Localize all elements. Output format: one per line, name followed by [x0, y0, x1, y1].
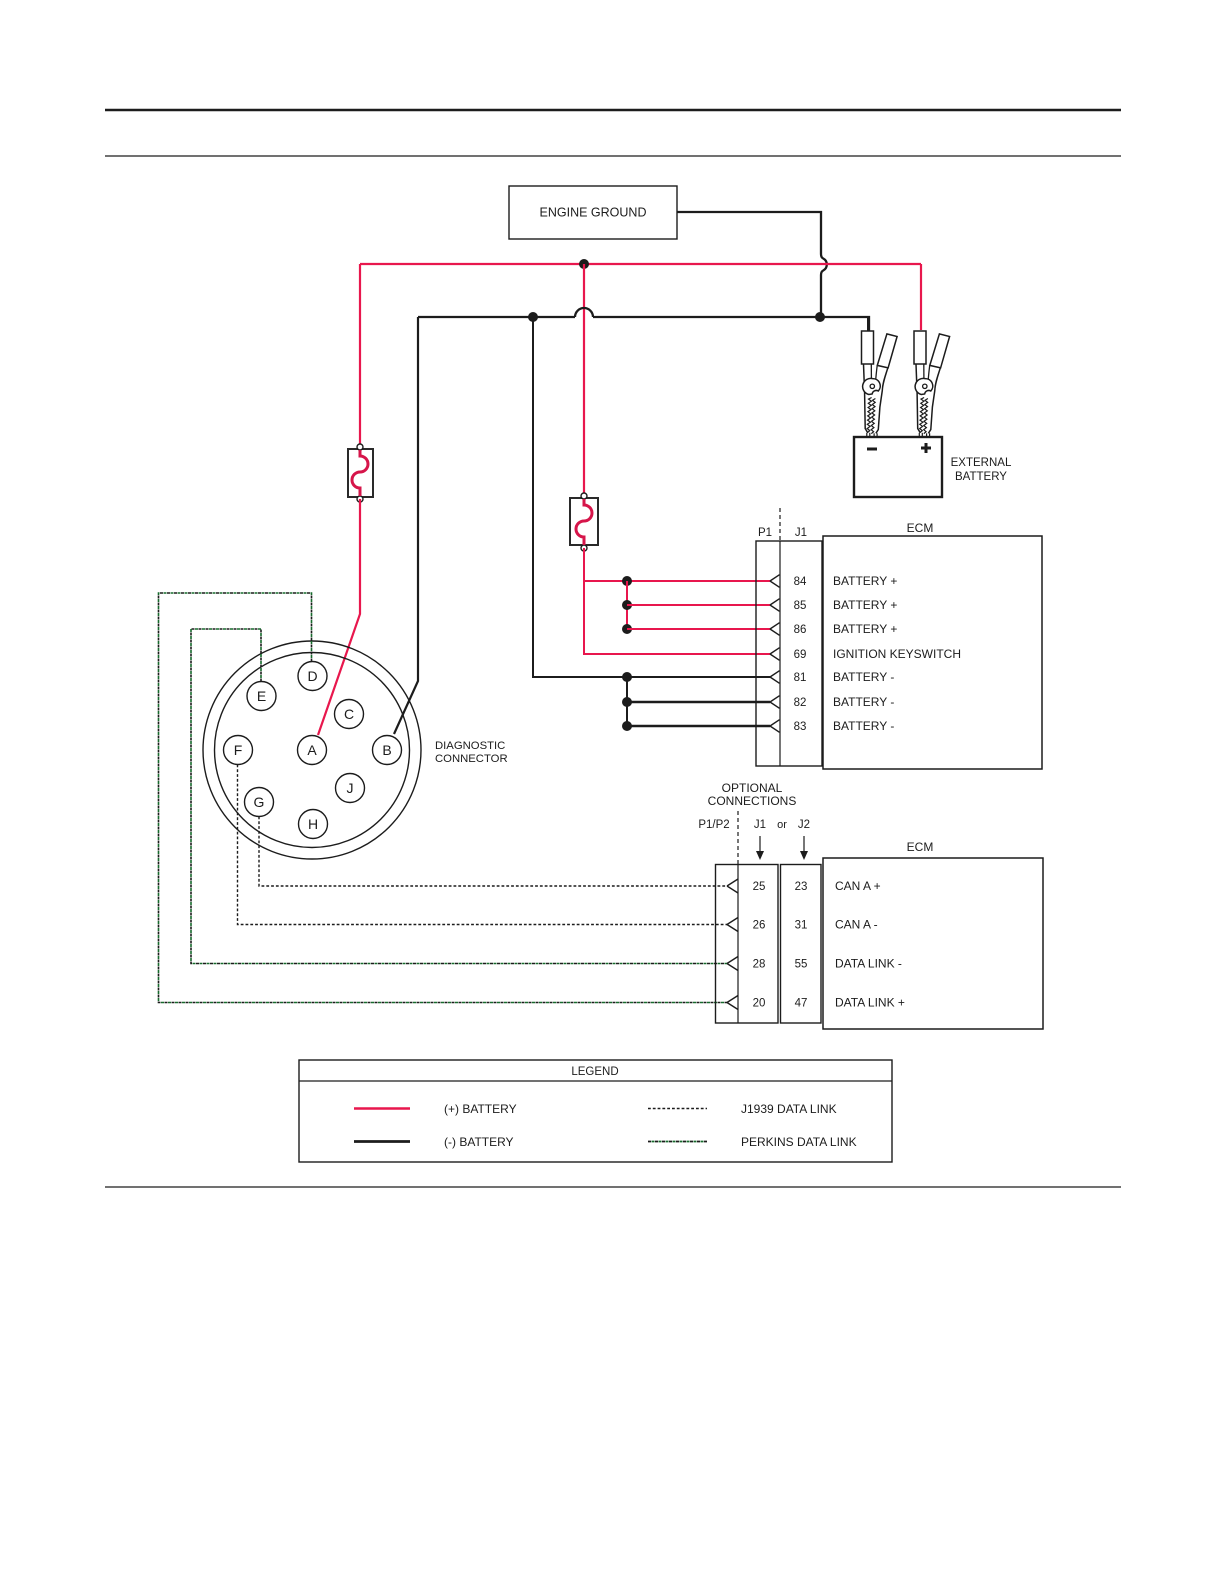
svg-text:81: 81 — [794, 672, 807, 684]
node junction pin83 branch — [622, 721, 632, 731]
wire hop over red battery+ wire — [821, 254, 827, 275]
node junction pin81 branch — [622, 672, 632, 682]
svg-text:G: G — [254, 794, 265, 810]
pin A — [298, 736, 327, 765]
ECM J1 connector strip — [756, 508, 822, 766]
svg-text:ECM: ECM — [907, 521, 934, 535]
svg-text:(-) BATTERY: (-) BATTERY — [444, 1135, 514, 1149]
pin C — [335, 700, 364, 729]
pin B — [373, 736, 402, 765]
svg-text:86: 86 — [794, 624, 807, 636]
svg-text:IGNITION KEYSWITCH: IGNITION KEYSWITCH — [833, 647, 961, 661]
node ENGINE GROUND box — [509, 186, 677, 239]
svg-text:BATTERY -: BATTERY - — [833, 670, 894, 684]
node junction red bus to keyswitch fuse — [579, 259, 589, 269]
pin D — [298, 662, 327, 691]
wire black to negative clip — [867, 317, 869, 331]
wire red to pin 85 — [627, 604, 770, 606]
svg-text:ECM: ECM — [907, 840, 934, 854]
node junction pin86 branch — [622, 624, 632, 634]
optional connector strip J2 — [781, 865, 822, 1024]
wire battery+ bus (red horizontal) — [360, 263, 921, 265]
node junction pin82 branch — [622, 697, 632, 707]
node junction battery- bus / ECM branch — [528, 312, 538, 322]
wire hop over red fuse wire — [575, 308, 593, 317]
pin J — [336, 774, 365, 803]
svg-text:D: D — [307, 668, 317, 684]
pin 69 — [770, 647, 961, 661]
svg-text:B: B — [382, 742, 391, 758]
svg-text:A: A — [307, 742, 317, 758]
top rule thin — [105, 155, 1121, 157]
wire Perkins data link D to pin 20 — [159, 593, 728, 1003]
arrow J1 column — [756, 836, 764, 860]
pin E — [247, 682, 276, 711]
wire red vertical 84-86 — [626, 581, 628, 629]
svg-text:31: 31 — [795, 920, 808, 932]
node junction pin85 branch — [622, 600, 632, 610]
wire battery- bus (black horizontal) left part — [418, 316, 575, 318]
svg-text:DATA LINK +: DATA LINK + — [835, 996, 905, 1010]
svg-text:82: 82 — [794, 697, 807, 709]
wire black to pin 82 — [627, 701, 770, 704]
svg-text:CONNECTIONS: CONNECTIONS — [708, 794, 797, 808]
svg-text:BATTERY +: BATTERY + — [833, 622, 897, 636]
svg-text:DATA LINK -: DATA LINK - — [835, 957, 902, 971]
wire down to battery- bus — [820, 275, 822, 317]
wire red down to fuse F2 — [583, 264, 585, 494]
svg-text:25: 25 — [753, 881, 766, 893]
pin 82 — [770, 695, 894, 709]
top rule thick — [105, 109, 1121, 112]
ECM box (data links) — [823, 840, 1043, 1029]
svg-text:EXTERNAL: EXTERNAL — [951, 457, 1012, 469]
svg-text:20: 20 — [753, 998, 766, 1010]
wire black down to ECM battery- pins — [533, 317, 770, 677]
pin 83 — [770, 719, 894, 733]
svg-text:CAN A +: CAN A + — [835, 879, 881, 893]
battery clip (positive) — [914, 331, 950, 438]
svg-text:83: 83 — [794, 721, 807, 733]
svg-text:DIAGNOSTIC: DIAGNOSTIC — [435, 740, 505, 752]
svg-text:J1: J1 — [795, 527, 807, 539]
svg-text:CAN A -: CAN A - — [835, 918, 878, 932]
svg-text:C: C — [344, 706, 354, 722]
wire J1939 data link F to pin 26 — [238, 765, 728, 925]
svg-text:BATTERY +: BATTERY + — [833, 598, 897, 612]
battery clip (negative) — [862, 331, 898, 438]
svg-text:J: J — [347, 780, 354, 796]
svg-text:P1: P1 — [758, 527, 772, 539]
svg-text:69: 69 — [794, 649, 807, 661]
wire black vertical 81-83 — [626, 677, 628, 726]
diagnostic connector outer ring — [203, 641, 421, 859]
svg-text:PERKINS DATA LINK: PERKINS DATA LINK — [741, 1135, 857, 1149]
external battery box — [854, 437, 942, 497]
legend box — [299, 1060, 892, 1162]
legend Perkins sample — [648, 1141, 707, 1143]
bottom rule — [105, 1186, 1121, 1188]
svg-text:84: 84 — [794, 576, 807, 588]
svg-text:E: E — [257, 688, 266, 704]
node junction pin84 branch — [622, 576, 632, 586]
svg-text:H: H — [308, 816, 318, 832]
svg-text:28: 28 — [753, 959, 766, 971]
svg-text:23: 23 — [795, 881, 808, 893]
pin 81 — [770, 670, 894, 684]
svg-text:or: or — [777, 819, 787, 831]
legend battery- sample — [354, 1140, 410, 1143]
pin H — [299, 810, 328, 839]
ECM box (power) — [823, 521, 1042, 769]
svg-text:P1/P2: P1/P2 — [698, 819, 729, 831]
wire red fuse F2 to ECM pin 69 — [584, 548, 770, 654]
svg-text:55: 55 — [795, 959, 808, 971]
svg-text:OPTIONAL: OPTIONAL — [722, 781, 783, 795]
pin 25 / 23 CAN A + — [727, 879, 881, 893]
svg-text:26: 26 — [753, 920, 766, 932]
wire Perkins data link E to pin 28 — [191, 629, 727, 964]
wire red branch to pin 84 — [584, 580, 770, 582]
svg-text:47: 47 — [795, 998, 808, 1010]
wire engine ground to battery (black, top) — [677, 212, 821, 254]
svg-text:F: F — [234, 742, 243, 758]
svg-text:J1: J1 — [754, 819, 766, 831]
wire black down to diagnostic connector pin B — [394, 317, 418, 734]
wire J1939 data link G to pin 25 — [259, 817, 727, 887]
svg-text:LEGEND: LEGEND — [571, 1066, 618, 1078]
wire red down-left to fuse F1 — [359, 264, 361, 447]
pin 26 / 31 CAN A - — [727, 918, 878, 932]
svg-text:BATTERY +: BATTERY + — [833, 574, 897, 588]
svg-text:(+) BATTERY: (+) BATTERY — [444, 1102, 517, 1116]
svg-text:BATTERY -: BATTERY - — [833, 719, 894, 733]
pin 85 — [770, 598, 897, 612]
fuse F1 (diagnostic connector supply) — [348, 444, 373, 502]
pin 86 — [770, 622, 897, 636]
svg-text:85: 85 — [794, 600, 807, 612]
pin 20 / 47 DATA LINK + — [727, 996, 905, 1010]
diagnostic connector inner ring — [215, 653, 410, 848]
optional connector strip P1/P2-J1 — [716, 865, 779, 1024]
wire red to pin 86 — [627, 628, 770, 630]
svg-text:BATTERY -: BATTERY - — [833, 695, 894, 709]
arrow J2 column — [800, 836, 808, 860]
wire red fuse F1 to pin A — [318, 499, 360, 735]
node junction battery- bus / engine ground — [815, 312, 825, 322]
wire battery- bus right part to clip — [593, 317, 869, 331]
wire red right to battery clip — [920, 264, 922, 330]
legend battery+ sample — [354, 1107, 410, 1109]
fuse F2 (keyswitch supply) — [570, 493, 598, 551]
wire black to pin 83 — [627, 725, 770, 728]
svg-text:ENGINE GROUND: ENGINE GROUND — [540, 206, 647, 220]
dashed P1/P2 divider lead — [737, 811, 739, 865]
legend J1939 sample — [648, 1108, 707, 1110]
pin 28 / 55 DATA LINK - — [727, 957, 902, 971]
pin G — [245, 788, 274, 817]
svg-text:BATTERY: BATTERY — [955, 471, 1007, 483]
svg-text:J1939 DATA LINK: J1939 DATA LINK — [741, 1102, 837, 1116]
svg-text:J2: J2 — [798, 819, 810, 831]
pin F — [224, 736, 253, 765]
pin 84 — [770, 574, 897, 588]
svg-text:CONNECTOR: CONNECTOR — [435, 753, 508, 765]
